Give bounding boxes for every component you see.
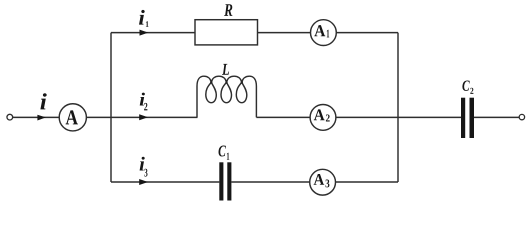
ammeter A2 xyxy=(310,105,336,131)
wire C1 to A3 xyxy=(231,181,309,183)
wire resistor to A1 xyxy=(258,32,311,34)
label i2 xyxy=(140,93,145,106)
wire inductor to A2 xyxy=(256,116,310,118)
capacitor C1 xyxy=(219,162,223,200)
label i xyxy=(40,93,46,109)
ammeter A3 xyxy=(310,169,336,195)
wire A3 to right bus xyxy=(336,181,399,183)
right bus node xyxy=(397,33,399,182)
wire ammeter A to left node xyxy=(86,116,111,118)
inductor crossing dots xyxy=(210,81,212,83)
inductor L xyxy=(197,76,256,117)
resistor R xyxy=(195,20,258,45)
arrow current i xyxy=(37,115,46,121)
wire terminal to ammeter A xyxy=(13,116,60,118)
wire A1 to right bus xyxy=(336,32,398,34)
arrow current i1 xyxy=(140,30,149,36)
label i3 xyxy=(140,157,145,171)
wire bottom branch left xyxy=(111,181,219,183)
left terminal xyxy=(7,114,13,120)
arrow current i2 xyxy=(139,114,148,120)
wire top branch left xyxy=(111,32,195,34)
left bus node xyxy=(110,33,112,182)
right terminal xyxy=(519,114,524,119)
wire C2 to right terminal xyxy=(474,116,519,118)
arrow current i3 xyxy=(139,179,148,185)
ammeter A1 xyxy=(311,20,337,46)
wire A2 to C2 xyxy=(336,116,461,118)
wire left node to inductor xyxy=(111,116,198,118)
label i1 xyxy=(139,10,145,25)
ammeter A xyxy=(59,104,86,131)
capacitor C2 xyxy=(461,98,465,138)
